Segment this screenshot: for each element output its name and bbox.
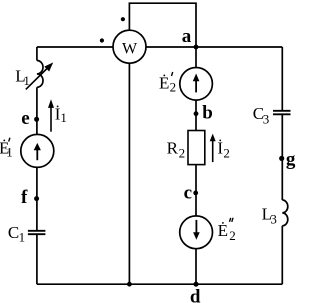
wire: middle branch R2 to E2'' through node c	[195, 165, 197, 216]
capacitor C3 plates	[273, 111, 291, 115]
svg-text:2: 2	[170, 80, 177, 95]
wire: top left horizontal from left rail to wattmeter	[37, 46, 113, 48]
wire: middle branch E2' to R2 through node b	[195, 100, 197, 130]
current arrow I2 head	[210, 134, 216, 142]
svg-text:a: a	[182, 26, 192, 47]
svg-text:c: c	[184, 183, 192, 204]
L1 variable arrow head	[44, 62, 53, 71]
wire: middle branch node a to E2'	[195, 47, 197, 68]
wire: left rail top segment	[36, 47, 38, 61]
node g dot	[279, 156, 284, 161]
wire: top right horizontal from wattmeter to right rail through node a	[146, 46, 282, 48]
svg-text:3: 3	[270, 212, 277, 227]
resistor R2 box	[188, 131, 205, 165]
svg-text:2: 2	[229, 228, 236, 243]
current arrow I1 head	[48, 99, 54, 108]
node a junction dot	[194, 45, 199, 50]
svg-text:3: 3	[263, 112, 270, 127]
svg-text:1: 1	[6, 144, 13, 159]
wattmeter polarity dot upper	[121, 17, 125, 21]
inductor L1 arcs	[37, 61, 43, 88]
current arrow I2 shaft	[212, 141, 214, 163]
wire: left rail bottom segment	[36, 234, 38, 284]
capacitor C1 plates	[28, 231, 46, 234]
junction dot wattmeter branch at bottom rail	[127, 282, 132, 287]
source E2' internal up arrow	[195, 81, 197, 93]
source E2'' circle	[180, 216, 213, 249]
wire: right rail bottom segment	[281, 226, 283, 284]
node b dot	[194, 111, 199, 116]
svg-text:e: e	[21, 108, 29, 129]
svg-text:2: 2	[179, 145, 186, 160]
inductor L3 arcs	[282, 200, 288, 226]
wire: wattmeter bottom branch down to bottom rail	[128, 63, 130, 284]
source E1 circle	[21, 134, 54, 167]
svg-text:1: 1	[19, 229, 26, 244]
node e dot	[34, 117, 39, 122]
svg-text:d: d	[190, 287, 201, 303]
node d junction dot	[194, 282, 199, 287]
svg-text:b: b	[202, 102, 213, 123]
wattmeter W circle	[113, 30, 146, 63]
wire: right rail C3 to L3 through node g	[281, 114, 283, 200]
double prime ticks of E2'' label	[230, 218, 234, 222]
svg-text:R: R	[167, 138, 179, 157]
svg-text:Ė: Ė	[159, 73, 169, 92]
node f dot	[34, 196, 39, 201]
svg-text:2: 2	[223, 145, 230, 160]
wire: wattmeter voltage-coil loop up over and down to node a	[129, 3, 196, 47]
node c dot	[193, 191, 198, 196]
wattmeter polarity dot left	[100, 38, 104, 42]
source E2'' internal down arrow	[195, 220, 197, 233]
prime tick of E1 label	[9, 138, 10, 142]
source E1 internal up arrow	[36, 150, 38, 161]
svg-text:f: f	[21, 187, 28, 208]
wire: right rail top segment	[281, 47, 283, 111]
svg-text:C: C	[8, 223, 19, 242]
L1 variable arrow shaft	[26, 68, 48, 89]
wire: bottom rail	[37, 283, 282, 285]
svg-text:1: 1	[60, 110, 67, 125]
svg-text:1: 1	[23, 73, 30, 88]
wire: middle branch bottom E2'' to node d	[195, 249, 197, 285]
source E2' circle	[180, 68, 213, 101]
current arrow I1 shaft	[50, 107, 52, 132]
prime tick of E2' label	[172, 72, 173, 76]
wire: left rail E1 to C1 through node f	[36, 167, 38, 230]
wire: left rail L1 to E1 through node e	[36, 87, 38, 134]
svg-text:W: W	[122, 40, 138, 57]
svg-text:Ė: Ė	[218, 221, 228, 240]
svg-text:g: g	[286, 149, 296, 170]
